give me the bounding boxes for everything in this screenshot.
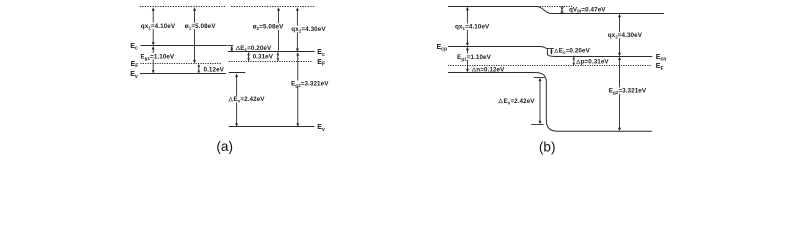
arrow qx1 (b): [466, 7, 469, 46]
label ΔEc=0.20eV (a): [236, 46, 240, 50]
I-beam arrow ΔEc (b): [550, 49, 552, 55]
svg-text:qx1=4.10eV: qx1=4.10eV: [455, 24, 490, 32]
Fermi level EF dashed (a-right): [229, 61, 312, 63]
arrow 0.31eV left (a): [247, 52, 250, 61]
arrow Eg1 band gap (a-left): [152, 46, 155, 74]
conduction band Ec line (a-right): [228, 51, 315, 53]
tick for ΔEc reference (a): [228, 45, 234, 47]
vacuum level dashed (a-left): [140, 6, 226, 8]
svg-text:p=0.31eV: p=0.31eV: [581, 59, 610, 66]
arrow ø2 work function (a-right): [277, 7, 280, 50]
tick for ΔEv top (b): [534, 77, 545, 79]
arrow qx1 electron affinity (a-left): [152, 7, 155, 45]
label Δp=0.31eV (b): [577, 60, 581, 63]
svg-text:qx2=4.30eV: qx2=4.30eV: [291, 26, 326, 34]
svg-text:(a): (a): [216, 139, 233, 154]
arrow Eg2 band gap (a-right): [296, 52, 299, 127]
svg-text:0.12eV: 0.12eV: [204, 67, 225, 74]
tick for ΔEv reference (a): [229, 72, 246, 74]
label qx2=4.30eV (a-right): [291, 26, 327, 34]
label qx2=4.30eV (b): [607, 32, 643, 40]
label qx1=4.10eV (a-left): [140, 23, 176, 31]
svg-text:qVbi=0.47eV: qVbi=0.47eV: [569, 6, 606, 13]
valence band Ev line (a-left): [140, 73, 226, 75]
valence band Ev profile (b): [448, 73, 652, 132]
valence band Ev line (a-right): [229, 126, 315, 128]
tick for ΔEv bottom (b): [531, 124, 543, 126]
label Eg1=1.10eV (a-left): [140, 53, 175, 61]
arrow qx2 electron affinity (a-right): [296, 7, 299, 52]
arrow qx2 (b): [618, 14, 621, 57]
label Eg1=1.10eV (b): [457, 54, 492, 62]
label qVbi=0.47eV (b): [569, 6, 607, 13]
vacuum level dashed continuation (b): [537, 6, 572, 8]
vacuum level dashed (a-right): [231, 6, 315, 8]
label ΔEv=2.42eV (a): [228, 96, 265, 104]
arrow 0.12eV EF-Ev (a-left): [198, 64, 201, 74]
svg-text:0.31eV: 0.31eV: [253, 54, 274, 61]
arrow Eg1 (b): [466, 47, 469, 73]
I-beam arrow ΔEc (a): [231, 46, 234, 52]
arrow Eg2 (b): [618, 57, 621, 132]
I-beam arrow qVbi (b): [560, 7, 564, 14]
arrow 0.31eV right (a): [277, 52, 280, 61]
label ø1=5.08eV (a-left): [184, 23, 217, 31]
svg-text:(b): (b): [539, 140, 556, 155]
label qx1=4.10eV (b): [455, 23, 491, 31]
label Δn=0.12eV (b): [472, 68, 476, 71]
label ΔEv=2.42eV (b): [498, 98, 535, 106]
label Eg2=3.321eV (b): [608, 87, 647, 95]
arrow ø1 work function (a-left): [193, 7, 196, 63]
svg-text:qx2=4.30eV: qx2=4.30eV: [608, 32, 643, 40]
label ø2=5.08eV (a-right): [252, 23, 285, 31]
I-beam arrow Δp (b): [573, 57, 575, 66]
vacuum level solid with built-in potential step (b): [448, 7, 664, 14]
tick for ΔEc reference (b): [547, 48, 556, 50]
arrow ΔEv (b): [539, 78, 542, 125]
conduction band Ec line (a-left): [141, 45, 227, 47]
Fermi level EF dashed (a-left): [140, 63, 221, 65]
label ΔEc=0.20eV (b): [554, 48, 591, 55]
svg-text:qx1=4.10eV: qx1=4.10eV: [141, 23, 176, 31]
conduction band Ec profile (b): [448, 47, 652, 57]
arrow ΔEv (a): [235, 74, 238, 127]
Fermi level EF dashed (b): [448, 65, 652, 67]
label Eg2=3.321eV (a-right): [291, 81, 330, 89]
